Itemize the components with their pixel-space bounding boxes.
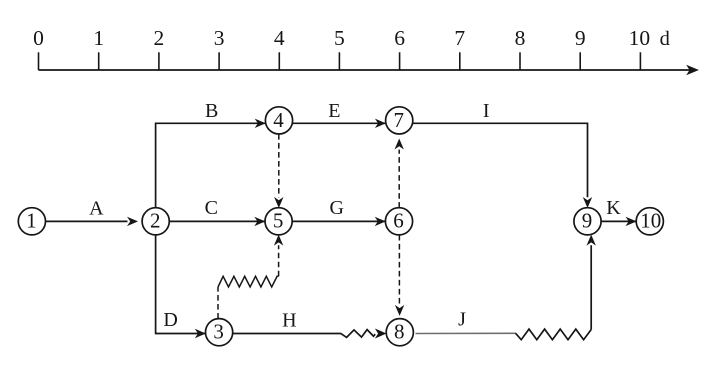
svg-text:K: K bbox=[606, 197, 621, 219]
svg-text:d: d bbox=[660, 28, 670, 50]
svg-text:J: J bbox=[458, 309, 466, 331]
svg-text:5: 5 bbox=[334, 26, 345, 50]
svg-text:G: G bbox=[329, 197, 343, 219]
svg-text:H: H bbox=[282, 309, 296, 331]
svg-text:C: C bbox=[205, 197, 218, 219]
svg-text:3: 3 bbox=[214, 26, 225, 50]
svg-text:1: 1 bbox=[26, 209, 37, 233]
svg-text:8: 8 bbox=[515, 26, 526, 50]
svg-text:8: 8 bbox=[394, 320, 405, 344]
svg-text:9: 9 bbox=[582, 209, 593, 233]
svg-text:2: 2 bbox=[154, 26, 165, 50]
svg-text:D: D bbox=[163, 309, 177, 331]
svg-text:6: 6 bbox=[394, 26, 405, 50]
svg-text:10: 10 bbox=[629, 26, 651, 50]
svg-text:4: 4 bbox=[273, 108, 284, 132]
svg-text:4: 4 bbox=[274, 26, 285, 50]
svg-text:5: 5 bbox=[273, 209, 284, 233]
svg-text:2: 2 bbox=[150, 209, 161, 233]
svg-text:I: I bbox=[483, 100, 490, 122]
svg-text:6: 6 bbox=[393, 209, 404, 233]
svg-text:B: B bbox=[205, 100, 218, 122]
svg-text:7: 7 bbox=[454, 26, 465, 50]
svg-text:10: 10 bbox=[640, 209, 661, 233]
svg-text:1: 1 bbox=[93, 26, 104, 50]
svg-text:3: 3 bbox=[213, 320, 224, 344]
svg-text:A: A bbox=[89, 197, 104, 219]
svg-text:9: 9 bbox=[575, 26, 586, 50]
svg-text:0: 0 bbox=[33, 26, 44, 50]
svg-text:E: E bbox=[328, 100, 340, 122]
svg-text:7: 7 bbox=[393, 108, 404, 132]
